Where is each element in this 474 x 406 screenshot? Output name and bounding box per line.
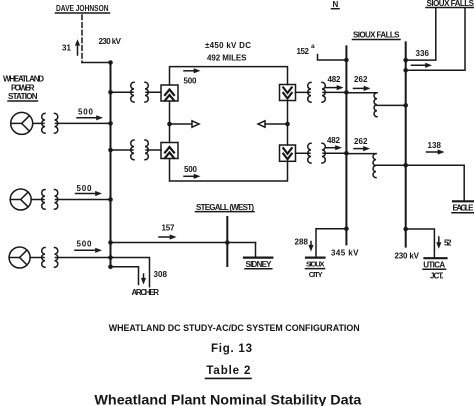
caption bottom (cut off)	[94, 393, 362, 406]
flow arrow 138	[427, 149, 445, 154]
flow arrow 52 down	[436, 237, 441, 249]
caption Fig. 13	[211, 343, 252, 355]
junction dots on 230 bus	[403, 58, 408, 232]
value label 288	[295, 237, 309, 246]
value label 52	[444, 238, 452, 247]
underline SIOUX	[306, 268, 325, 270]
transformer T1 winding b	[55, 113, 58, 133]
svg-text:a: a	[311, 43, 315, 50]
value label 138	[428, 141, 442, 150]
value label 157	[162, 224, 176, 233]
underline SIDNEY	[245, 268, 272, 270]
value label 262 bottom	[354, 137, 368, 146]
transformer T6 winding b	[322, 82, 325, 102]
wire line to Stegall	[111, 242, 256, 244]
svg-text:500: 500	[77, 184, 93, 193]
converter U1 (rectifier, pole 1)	[161, 85, 178, 101]
flow arrow 157	[159, 234, 177, 239]
flow arrow 500 G1	[77, 115, 103, 120]
svg-text:230 kV: 230 kV	[99, 37, 122, 46]
transformer T5 winding b	[145, 140, 148, 160]
bus Sioux Falls 345kV	[345, 46, 347, 244]
wire bus to rectifier T4	[111, 91, 134, 93]
footnote a	[311, 43, 315, 50]
junction dots on Wheatland bus	[108, 60, 113, 269]
wire Dave Johnson to bus	[82, 62, 111, 64]
transformer T7 winding a	[308, 143, 311, 163]
node SIOUX CITY label	[306, 260, 325, 279]
generator G3	[9, 247, 30, 268]
svg-text:UTICA: UTICA	[423, 261, 445, 270]
wire DC line positive pole	[170, 67, 288, 85]
transformer T4 winding a	[131, 82, 134, 102]
wire G3 to transformer	[30, 257, 44, 259]
wire electrode line right	[287, 101, 289, 145]
value label 500 DC bottom	[184, 165, 198, 174]
svg-text:SIOUX FALLS: SIOUX FALLS	[353, 31, 400, 40]
svg-text:152: 152	[297, 47, 310, 56]
wire Sioux Falls tie 2	[406, 9, 465, 71]
svg-text:138: 138	[428, 141, 442, 150]
svg-text:EAGLE: EAGLE	[453, 204, 474, 213]
svg-text:262: 262	[354, 75, 368, 84]
node SIDNEY label	[246, 260, 273, 269]
svg-text:500: 500	[184, 77, 198, 86]
terminal bar Sidney	[244, 257, 272, 259]
value label 500 G3	[77, 240, 93, 249]
svg-text:ARCHER: ARCHER	[132, 288, 160, 297]
value label 482 top	[328, 75, 342, 84]
svg-text:N: N	[333, 0, 339, 9]
svg-text:288: 288	[295, 237, 309, 246]
terminal bar Sioux City	[306, 257, 325, 259]
transformer T3 winding a	[42, 248, 45, 268]
node N label	[333, 0, 339, 9]
value label 308	[154, 270, 168, 279]
underline SIOUX FALLS (top right)	[426, 7, 474, 9]
svg-text:SIOUX FALLS: SIOUX FALLS	[427, 0, 474, 8]
wire 152 tie	[318, 55, 347, 61]
transformer T3 winding b	[55, 248, 58, 268]
terminal bar Utica	[425, 257, 447, 259]
transformer T5 winding a	[131, 140, 134, 160]
caption line 1	[109, 323, 360, 334]
wire line to Eagle	[406, 165, 465, 200]
bus Stegall West	[226, 217, 228, 266]
svg-text:SIOUX: SIOUX	[306, 260, 325, 269]
svg-text:WHEATLAND DC STUDY-AC/DC SYSTE: WHEATLAND DC STUDY-AC/DC SYSTEM CONFIGUR…	[109, 323, 360, 334]
svg-text:500: 500	[77, 240, 93, 249]
wire U4 to transformer T7	[296, 152, 311, 154]
flow arrow 262 bottom	[354, 146, 370, 151]
converter U4 (inverter, pole 2)	[280, 145, 296, 161]
wire drop to Sidney	[255, 243, 257, 258]
value label 500 G1	[78, 108, 94, 117]
flow arrow 262 top	[354, 86, 371, 91]
flow arrow 482 bottom	[326, 145, 343, 150]
wire line to Utica Jct	[406, 229, 435, 257]
svg-text:STEGALL (WEST): STEGALL (WEST)	[196, 203, 254, 212]
transformer T7 winding b	[322, 143, 325, 163]
svg-text:52: 52	[444, 238, 452, 247]
svg-text:157: 157	[162, 224, 176, 233]
generator G2	[10, 189, 31, 210]
transformer T1 winding a	[42, 113, 45, 133]
flow arrow 288 down	[308, 242, 313, 252]
label 230 kV right	[395, 252, 420, 261]
value label 500 G2	[77, 184, 93, 193]
wire bus to rectifier T5	[111, 149, 134, 151]
svg-text:230 kV: 230 kV	[395, 252, 420, 261]
bus Wheatland 230kV	[110, 63, 112, 268]
svg-text:JCT.: JCT.	[430, 272, 444, 281]
svg-text:500: 500	[78, 108, 94, 117]
junction electrode right	[285, 122, 290, 127]
transformer T6 winding a	[308, 82, 311, 102]
value label 152	[297, 47, 310, 56]
underline N	[332, 8, 340, 10]
generator G1	[11, 112, 33, 134]
junction electrode left	[167, 122, 172, 127]
svg-text:WHEATLAND: WHEATLAND	[3, 75, 44, 84]
flow arrow 31 up	[75, 39, 80, 55]
svg-text:308: 308	[154, 270, 168, 279]
value label 31	[62, 44, 72, 53]
value label 500 DC top	[184, 77, 198, 86]
caption Table 2	[206, 365, 250, 377]
flow arrow 482 top	[325, 85, 344, 90]
svg-text:Fig. 13: Fig. 13	[211, 343, 252, 355]
node STEGALL (WEST) label	[196, 203, 254, 212]
svg-text:DAVE JOHNSON: DAVE JOHNSON	[56, 4, 109, 13]
converter U3 (inverter, pole 1)	[280, 85, 296, 101]
wire G1 to transformer	[33, 122, 44, 124]
svg-text:482: 482	[327, 136, 341, 145]
wire Archer branch 2	[111, 267, 139, 285]
flow arrow 500 DC top	[184, 68, 201, 73]
svg-text:Table 2: Table 2	[206, 365, 250, 377]
svg-text:345 kV: 345 kV	[331, 249, 359, 258]
svg-text:31: 31	[62, 44, 72, 53]
wire T4 to converter U1	[146, 91, 161, 93]
node DAVE JOHNSON label	[56, 4, 109, 13]
converter U2 (rectifier, pole 2)	[161, 143, 178, 159]
wire Sioux Falls tie 1	[406, 9, 436, 61]
value label 336	[416, 49, 430, 58]
flow arrow 500 G3	[75, 248, 102, 253]
svg-text:492 MILES: 492 MILES	[207, 54, 247, 63]
label 345 kV	[331, 249, 359, 258]
underline EAGLE	[452, 212, 474, 214]
svg-text:STATION: STATION	[8, 92, 38, 101]
transformer T4 winding b	[145, 82, 148, 102]
node ARCHER label	[132, 288, 160, 297]
node EAGLE label	[453, 204, 474, 213]
wire T5 to converter U2	[146, 149, 161, 151]
svg-text:336: 336	[416, 49, 430, 58]
label 492 MILES	[207, 54, 247, 63]
terminal bar Eagle	[453, 200, 474, 202]
svg-text:Wheatland Plant Nominal Stabil: Wheatland Plant Nominal Stability Data	[94, 393, 362, 406]
underline SIOUX FALLS (345)	[353, 39, 401, 41]
wire U3 to transformer T6	[296, 91, 311, 93]
svg-text:CITY: CITY	[309, 270, 323, 279]
transformer T2 winding a	[42, 190, 45, 210]
wire Archer branch 1	[111, 258, 150, 287]
svg-text:SIDNEY: SIDNEY	[246, 260, 273, 269]
node WHEATLAND POWER STATION label	[3, 75, 44, 102]
svg-text:262: 262	[354, 137, 368, 146]
wire DC line negative pole	[170, 159, 288, 182]
svg-text:±450 kV DC: ±450 kV DC	[205, 41, 251, 50]
underline Table 2	[206, 377, 252, 379]
ground electrode arrow right	[258, 121, 288, 127]
value label 482 bottom	[327, 136, 341, 145]
ground electrode arrow left	[170, 121, 200, 127]
value label 262 top	[354, 75, 368, 84]
underline STEGALL	[196, 211, 255, 213]
wire dashed tie to Dave Johnson	[81, 15, 83, 63]
wire T7 to 345 bus	[323, 152, 346, 154]
flow arrow 308 down	[141, 274, 146, 285]
transformer T2 winding b	[55, 190, 58, 210]
wire T3 to bus	[56, 257, 111, 259]
underline STATION	[8, 100, 38, 102]
autotransformer T9 (345/230) bottom	[346, 154, 405, 178]
autotransformer T8 (345/230) top	[346, 93, 405, 117]
label ±450 kV DC	[205, 41, 251, 50]
wire T1 to bus	[56, 122, 111, 124]
value label 230 kV top	[99, 37, 122, 46]
svg-text:482: 482	[328, 75, 342, 84]
flow arrow 500 G2	[76, 191, 103, 196]
wire electrode line left	[169, 101, 171, 143]
node UTICA JCT label	[423, 261, 445, 281]
flow arrow 500 DC bottom	[184, 174, 201, 179]
underline DAVE JOHNSON	[56, 12, 110, 14]
svg-text:500: 500	[184, 165, 198, 174]
wire G2 to transformer	[31, 199, 44, 201]
label SIOUX FALLS (top right)	[427, 0, 474, 8]
underline UTICA	[423, 268, 446, 270]
flow arrow 336	[412, 63, 433, 68]
junction dots on 345 bus	[344, 58, 349, 231]
wire line to Sioux City	[316, 229, 346, 257]
label SIOUX FALLS (345)	[353, 31, 400, 40]
wire T2 to bus	[56, 199, 111, 201]
bus Sioux Falls 230kV	[405, 42, 407, 246]
wire T6 to 345 bus	[323, 91, 346, 93]
junction Stegall	[225, 240, 230, 245]
